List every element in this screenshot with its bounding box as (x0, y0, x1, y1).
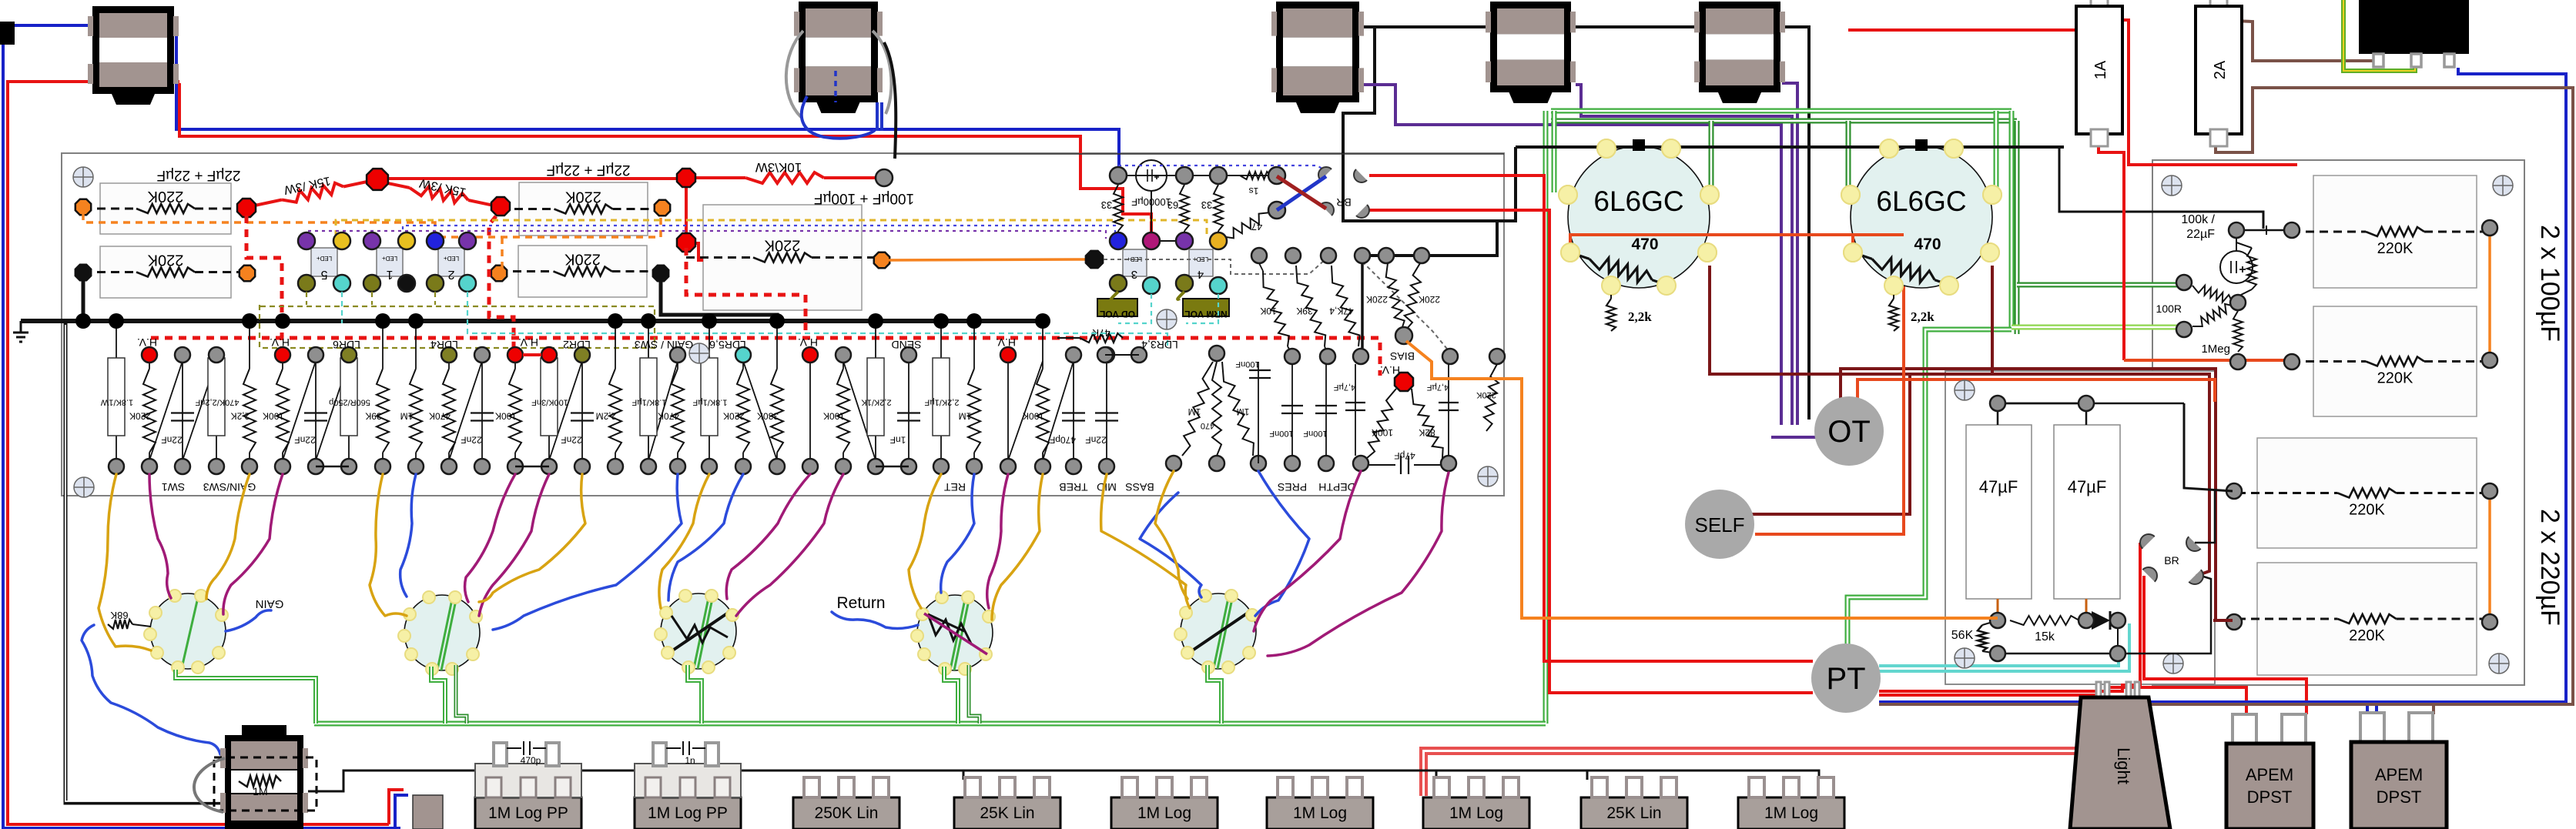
svg-text:LED+: LED+ (444, 255, 460, 262)
component 1nF col 1180 (908, 355, 909, 466)
svg-text:H.V.: H.V. (798, 336, 818, 349)
cap 47uF right (2054, 425, 2120, 599)
wire green heater drops to power tube pins (1552, 111, 1557, 192)
svg-text:47pF: 47pF (1394, 450, 1415, 461)
svg-text:APEM: APEM (2246, 765, 2293, 784)
svg-text:OD VOL: OD VOL (1100, 309, 1135, 319)
transformer circle SELF (1685, 490, 1754, 559)
wire maroon X (1277, 176, 1326, 209)
svg-text:15k: 15k (2035, 630, 2055, 643)
47uF cap board (1945, 371, 2215, 684)
47uF board screws (1955, 380, 1975, 400)
svg-text:220K: 220K (129, 411, 151, 422)
resistor 68K tube1 (108, 620, 132, 629)
svg-text:DEPTH: DEPTH (1318, 481, 1355, 493)
resistor diagonal 2 (2192, 304, 2232, 326)
component 100K col 1354 (1042, 321, 1043, 369)
lower turret links (316, 466, 349, 468)
wire yellow v1 grid (99, 474, 151, 650)
wire black T3 drop to BR (1343, 27, 1516, 221)
svg-text:470: 470 (1914, 236, 1941, 253)
wire blue right edge from IEC (2367, 68, 2566, 716)
wire red bus to board (179, 83, 1151, 239)
svg-text:100K: 100K (823, 411, 845, 422)
turret row 332 (1251, 248, 1267, 263)
svg-text:82K: 82K (1419, 427, 1435, 438)
right board 220K box3 (2257, 438, 2477, 548)
svg-text:DPST: DPST (2247, 787, 2293, 807)
resistor 15k (2010, 616, 2079, 625)
resistor 10K/3W (692, 176, 745, 179)
wire red BR drop 2 to APEM1 (2144, 576, 2306, 714)
potentiometer 1M Log at 2257 (1738, 797, 1844, 829)
component 470K/2,2nF col 281 (216, 355, 217, 466)
preamp tube V1 (150, 593, 226, 669)
wire maroon into box4 (2213, 619, 2233, 622)
cap 47uF left (1966, 425, 2032, 599)
svg-text:100nF: 100nF (1235, 359, 1259, 369)
preamp tube V5 (1181, 593, 1256, 669)
wire green heater bus preamp riser (1543, 111, 1549, 724)
wire yellow v2 c (479, 474, 585, 602)
svg-text:PT: PT (1826, 662, 1865, 696)
svg-text:LDR4: LDR4 (430, 339, 458, 351)
component 220K col 194 (149, 355, 150, 369)
svg-text:NRM VOL: NRM VOL (1184, 309, 1227, 319)
resistor 33 col1582 (1218, 175, 1219, 185)
svg-text:1s: 1s (1249, 186, 1259, 196)
wire magenta v5 b (1268, 473, 1449, 656)
wire red HT secondary BR to PT 2 (1369, 210, 1813, 693)
LED 5 box (311, 248, 337, 276)
potentiometer 25K Lin at 2053 (1581, 797, 1687, 829)
svg-text:4,7µF: 4,7µF (1334, 383, 1356, 392)
LED dots bottom row left (298, 275, 315, 292)
svg-text:100K: 100K (495, 411, 517, 422)
wire black 100k node (2236, 229, 2292, 232)
octagon orange D-right (874, 252, 889, 268)
svg-text:1M Log: 1M Log (1137, 804, 1191, 822)
wire magenta v2 a (465, 474, 515, 602)
svg-text:33: 33 (1201, 199, 1212, 211)
svg-text:1M: 1M (1188, 406, 1201, 417)
wire purple OT primary 1 (1362, 85, 1781, 425)
svg-text:100K: 100K (263, 411, 284, 422)
svg-text:22nF: 22nF (1085, 435, 1106, 446)
svg-text:33: 33 (1101, 199, 1112, 211)
wire red dashed D drop (686, 248, 806, 336)
svg-text:2,2K/1µF: 2,2K/1µF (924, 398, 959, 407)
wire yellow v5 c (1155, 471, 1188, 599)
wire black bottom row (1998, 576, 2211, 654)
svg-text:100nF: 100nF (1303, 429, 1327, 438)
wire blue APEM horizontal (1879, 700, 2367, 704)
svg-text:47µF: 47µF (1979, 477, 2018, 496)
svg-text:470pF: 470pF (1050, 435, 1076, 446)
resistor box 220K B (100, 246, 231, 298)
svg-text:LDR3,4: LDR3,4 (1141, 339, 1178, 351)
lamp holder Light (2070, 697, 2170, 829)
wire gray jack loop (194, 758, 225, 812)
resistor 47 diagonal (1226, 212, 1271, 238)
wire magenta v3 a (726, 474, 810, 599)
resistor box 220K D wide (703, 205, 862, 310)
svg-text:47K,4: 47K,4 (1329, 306, 1354, 316)
svg-text:220K: 220K (2377, 240, 2414, 257)
input jack (225, 735, 303, 829)
svg-text:220K: 220K (2349, 502, 2385, 519)
svg-text:39K: 39K (365, 411, 381, 422)
small connector top-left (0, 22, 15, 45)
component 2,2K col 324 (249, 321, 250, 369)
right board 220K box4 (2257, 563, 2477, 675)
svg-text:2A: 2A (2212, 60, 2229, 79)
resistor 39K diag (1296, 266, 1325, 346)
resistor 10K diag (1259, 263, 1263, 271)
svg-text:H.V.: H.V. (518, 336, 538, 349)
wire cyan PT pair (1879, 656, 2119, 666)
wire yellow dashed LED supply (336, 220, 1207, 239)
LED dots top row left (298, 232, 315, 249)
wire orange D to hex (887, 259, 1087, 260)
wire green pair to PT (1847, 329, 2012, 650)
svg-text:1.8K/1µF: 1.8K/1µF (631, 398, 666, 407)
wire magenta v3 b (736, 474, 843, 616)
wire blue v4 return (832, 612, 918, 628)
main turret board (62, 153, 1504, 496)
turret 100k node (2229, 222, 2244, 238)
wire red PT to lamp (1879, 694, 2098, 697)
wire magenta v1 (149, 474, 171, 598)
cap 22uF circle symbol (2236, 238, 2237, 250)
wire yellow v4 (909, 474, 941, 608)
wire black BR to edge (2195, 491, 2215, 543)
svg-text:25K Lin: 25K Lin (1606, 804, 1661, 822)
resistor box 220K A (100, 183, 231, 234)
wire yellow v3 (659, 474, 709, 608)
svg-text:470: 470 (1631, 236, 1658, 253)
wire black E-right to bus (661, 277, 777, 321)
right filter-cap board 2x100uF / 2x220uF (2152, 160, 2524, 685)
wire red fuse 1A feed (1848, 13, 2099, 30)
wire black heater centre bus power tubes (1516, 145, 2064, 149)
octagon black B-left (75, 265, 91, 280)
turret 10K end (876, 169, 893, 186)
resistor 82K bias leg (1412, 389, 1443, 458)
component 330K col 1009 (776, 321, 778, 369)
wire blue dotted LED supply (403, 226, 1115, 236)
svg-text:100K/3nF: 100K/3nF (531, 398, 568, 407)
preamp tube V2 (404, 595, 480, 670)
component link col 1309 (1007, 355, 1009, 466)
svg-text:GAIN/SW3: GAIN/SW3 (203, 481, 256, 493)
wire blue v2 (400, 474, 416, 597)
svg-text:1n: 1n (685, 755, 695, 766)
wire blue v4 b (941, 474, 974, 593)
cyan dashed LDR link (467, 292, 1167, 346)
svg-text:BIAS: BIAS (1390, 350, 1415, 363)
switch APEM DPST 1 (2233, 714, 2256, 745)
wire yellow v2 (370, 474, 407, 616)
svg-text:100nF: 100nF (1269, 429, 1293, 438)
IEC inlet block (2359, 0, 2469, 54)
red link HV pair (523, 353, 541, 356)
transformer circle PT (1811, 643, 1881, 713)
resistor 33 col1452 (1114, 185, 1123, 231)
svg-text:LDR2: LDR2 (563, 339, 591, 351)
transformer circle OT (1814, 396, 1884, 466)
svg-text:BASS: BASS (1125, 481, 1154, 493)
jack dashed 1M resistor (214, 757, 317, 811)
wire orange-red cathode tube A to SELF (1570, 235, 1904, 534)
svg-text:PRES: PRES (1278, 481, 1307, 493)
resistor 47K4 diag (1332, 266, 1360, 346)
svg-text:APEM: APEM (2375, 765, 2423, 784)
wire blue T2 drop (802, 96, 875, 139)
green drops tube1 (176, 670, 316, 724)
colour dots LED34 bottom (1110, 275, 1127, 292)
caps 4.7uF right (1355, 364, 1356, 456)
svg-text:SEND: SEND (892, 339, 922, 351)
wire purple dotted LED supply (307, 231, 1106, 239)
orange stubs cap bottoms (1997, 599, 1999, 620)
potentiometer 250K Lin at 1030 (793, 797, 899, 829)
svg-text:220K: 220K (564, 189, 601, 206)
cap 10000uF circle (1136, 160, 1167, 191)
svg-text:470p: 470p (521, 755, 541, 766)
power tube V5 6L6GC (1851, 146, 1992, 288)
svg-text:1M: 1M (253, 785, 267, 797)
svg-text:SELF: SELF (1694, 513, 1744, 537)
wire red blue to speaker jack (389, 790, 404, 824)
upper turret row (142, 347, 157, 363)
resistor 220K bias 2 (1405, 263, 1421, 329)
svg-text:100R: 100R (2156, 303, 2182, 315)
turret row 461 mid extras (1131, 347, 1147, 363)
wire red dashed HV to LDR column (246, 216, 282, 348)
speaker jack small (413, 795, 443, 829)
svg-text:BR: BR (2164, 554, 2179, 567)
lower turret row (109, 459, 124, 474)
fanout 1580 (1216, 353, 1218, 356)
wire purple OT primary 3 (1782, 83, 1797, 425)
component 100K col 669 (514, 355, 516, 369)
wire red fuse 1A top out (2099, 20, 2297, 165)
preamp tube V4 (917, 595, 993, 670)
wire black transformer top link (1359, 27, 1809, 420)
svg-text:22nF: 22nF (561, 435, 581, 446)
svg-text:220K: 220K (1419, 294, 1440, 305)
turret row 10000uF (1110, 167, 1127, 184)
right board screws (2162, 175, 2182, 196)
octagon big red 15K junction (367, 169, 388, 190)
resistor 1Meg vertical (2233, 311, 2243, 352)
wire blue jack feed (82, 625, 220, 754)
switch APEM DPST 2 (2360, 713, 2384, 744)
resistor 63 col1538 (1184, 175, 1185, 185)
ground bus wire (21, 319, 1047, 323)
svg-text:H.V.: H.V. (137, 336, 157, 349)
board corner screws (73, 167, 93, 187)
resistor 1s link (1240, 172, 1271, 179)
svg-text:GAIN: GAIN (256, 597, 284, 610)
svg-text:2: 2 (447, 268, 454, 281)
transformer T2 (799, 2, 878, 102)
component 1.8K/1µF col 842 (648, 321, 649, 466)
cap 47pF (1361, 464, 1395, 466)
svg-text:63: 63 (1167, 199, 1178, 211)
component 220K col 965 (742, 355, 744, 369)
pot bus drops (485, 771, 487, 780)
turret row 602 right (1166, 456, 1181, 471)
wire blue v2 long (493, 474, 682, 630)
component 1.8K/1W col 151 (116, 321, 117, 466)
octagon red A-right (237, 199, 256, 217)
resistor 15K/3W right (380, 182, 410, 188)
svg-text:Light: Light (2114, 747, 2133, 784)
wire orange-red cathode overlay (1570, 235, 1904, 251)
resistor 100K bias leg (1367, 389, 1396, 458)
component 560R/250p col 453 (348, 355, 350, 466)
component 22nF col 1437 (1106, 355, 1107, 466)
BR bridge power (2136, 530, 2154, 548)
svg-text:2,2k: 2,2k (1911, 309, 1935, 324)
cyan dashed LED34 (1118, 294, 1151, 323)
ground symbol (20, 321, 22, 333)
component 470K col 583 (448, 355, 450, 369)
orange wire bias to 56K (1406, 341, 1998, 618)
orange wire 1Meg to box2 (2234, 359, 2292, 362)
component 1.8K/1µF col 921 (708, 321, 710, 466)
wire red dashed C drop (489, 216, 514, 348)
component link col 1052 (809, 355, 811, 466)
svg-text:TREB: TREB (1059, 481, 1087, 493)
component 1M col 1265 (973, 321, 975, 369)
wire top turret link 10000uF row (1118, 175, 1277, 176)
cap 100nF tall (1258, 362, 1259, 463)
svg-text:100K: 100K (1372, 427, 1393, 438)
component 470pF col 1394 (1073, 355, 1074, 466)
svg-text:2,2K: 2,2K (231, 411, 250, 422)
component 2,2M col 799 (615, 321, 616, 369)
svg-text:5: 5 (320, 268, 327, 281)
svg-text:100µF + 100µF: 100µF + 100µF (814, 190, 914, 206)
octagon black E-right (653, 266, 668, 281)
wire blue heater bus to board (176, 28, 1119, 171)
component 22nF col 237 (182, 355, 183, 466)
svg-text:1Meg: 1Meg (2201, 343, 2230, 356)
wire maroon SELF to node (1748, 376, 1910, 514)
svg-text:SW1: SW1 (162, 481, 186, 493)
svg-text:25K Lin: 25K Lin (980, 804, 1034, 822)
potentiometer 25K Lin at 1239 (954, 797, 1060, 829)
right board 220K box2 (2313, 306, 2477, 416)
component 2,2K/1K col 1137 (875, 321, 876, 466)
svg-text:1.8K/1W: 1.8K/1W (100, 398, 133, 407)
svg-text:LDR6: LDR6 (333, 339, 360, 351)
power tube V4 6L6GC (1568, 146, 1710, 288)
svg-text:100K: 100K (1023, 411, 1044, 422)
svg-text:1M: 1M (400, 411, 414, 422)
component 22nF col 410 (315, 355, 317, 466)
wire magenta v5 a (1254, 471, 1361, 631)
green drops tube4 (944, 667, 958, 724)
LED 1 box (377, 248, 403, 276)
orange links right board (2488, 228, 2491, 360)
wire orange fuse to 1Meg node (2124, 359, 2234, 362)
wire black heater ct to 100k node (2059, 147, 2263, 229)
svg-text:470K: 470K (429, 411, 451, 422)
resistor 47K on HV line (1057, 337, 1080, 339)
svg-text:470K: 470K (658, 411, 679, 422)
wire red fuse 1A bottom out (2099, 145, 2124, 360)
transformer T3 (1276, 2, 1359, 102)
svg-text:2,2M: 2,2M (596, 411, 617, 422)
olive dashed LDR box (260, 305, 655, 348)
component 100K col 1095 (842, 355, 844, 369)
fuse 2A (2210, 0, 2227, 11)
svg-text:22µF + 22µF: 22µF + 22µF (546, 162, 630, 178)
svg-text:220K: 220K (723, 411, 745, 422)
potentiometer 1M Log PP at 824 (635, 797, 741, 829)
wire lime IEC earth (2343, 0, 2415, 71)
gray dashed LDR34 path (1104, 259, 1326, 274)
wire red octagon drop (685, 183, 688, 237)
component 39K col 497 (382, 321, 384, 369)
svg-text:RET: RET (944, 481, 966, 493)
svg-text:1M: 1M (959, 411, 972, 422)
LED 3 box (1123, 249, 1147, 276)
component 22nF col 756 (581, 355, 583, 466)
component 100K/3nF col 713 (548, 355, 550, 466)
octagon orange C-right (655, 200, 670, 216)
wire red spare pair to left (1421, 748, 2079, 796)
component 100K col 367 (282, 355, 283, 369)
octagon red D-left (677, 233, 695, 252)
wire black heater bus overlay (1516, 145, 2064, 149)
wire magenta v4 (987, 474, 1008, 608)
power tube pins overlay (1597, 139, 1616, 158)
svg-text:220K: 220K (564, 251, 600, 268)
svg-text:LDR5,6: LDR5,6 (709, 339, 746, 351)
wire yellow v1 b (206, 474, 250, 599)
wire red lamp to APEM1 (2108, 687, 2246, 714)
potentiometer 1M Log PP at 617 (475, 797, 581, 829)
wire brown APEM2 horizontal (1879, 703, 2434, 706)
green terminal dots (2176, 275, 2192, 290)
svg-text:LED+: LED+ (317, 255, 333, 262)
wire black T2 drop (884, 42, 896, 159)
right board 220K box1 (2313, 175, 2477, 288)
svg-text:220K: 220K (2377, 370, 2414, 387)
bus junction dots (75, 313, 91, 329)
potentiometer 1M Log at 1645 (1267, 797, 1373, 829)
wire purple OT stub (1771, 436, 1817, 439)
octagon red 10K junction (677, 169, 695, 187)
svg-text:470: 470 (1201, 421, 1214, 430)
svg-text:22µF: 22µF (2186, 228, 2215, 241)
svg-text:H.V.: H.V. (270, 336, 290, 349)
svg-text:47µF: 47µF (2068, 477, 2107, 496)
green drops tube5 (1208, 665, 1221, 724)
svg-text:22µF + 22µF: 22µF + 22µF (156, 167, 240, 183)
svg-text:DPST: DPST (2377, 787, 2422, 807)
component 22nF col 626 (481, 355, 483, 466)
wire blue v3 (668, 474, 743, 600)
resistor 56K (1978, 625, 1987, 651)
green drops tube3 (688, 665, 702, 724)
svg-text:2 x 220µF: 2 x 220µF (2535, 509, 2564, 626)
